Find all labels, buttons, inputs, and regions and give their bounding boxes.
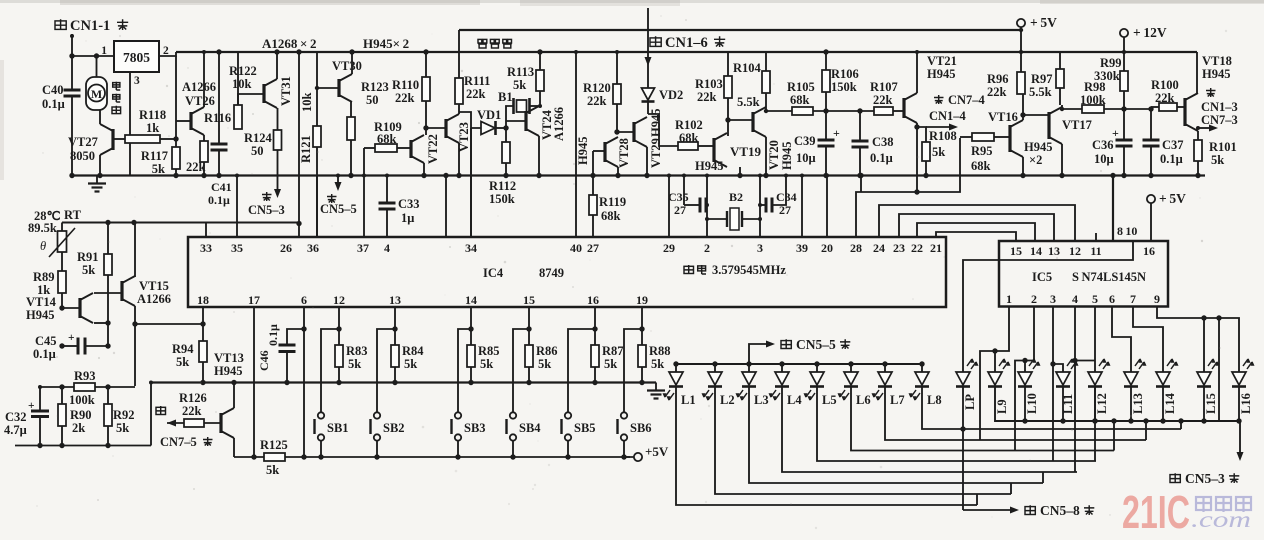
svg-text:R117: R117 [141, 149, 168, 163]
svg-text:19: 19 [636, 293, 648, 307]
svg-text:5: 5 [1092, 292, 1098, 306]
svg-text:C38: C38 [872, 135, 894, 149]
LED L4 [779, 361, 784, 366]
svg-text:5k: 5k [604, 357, 617, 371]
svg-text:15: 15 [523, 293, 535, 307]
wire VT22 emitter to ground rail [423, 163, 425, 176]
svg-text:A1268 × 2: A1268 × 2 [262, 36, 317, 51]
svg-text:27: 27 [587, 241, 599, 255]
wire IC4 pin drop for R88 [641, 307, 643, 345]
switch SB2 [377, 329, 395, 412]
svg-text:R97: R97 [1031, 72, 1053, 86]
wire VD2 to VT29 collector [647, 102, 649, 115]
svg-text:R124: R124 [244, 131, 273, 145]
wire bottom-left rail [15, 445, 151, 447]
wire RT pull-up vertical (pin 26 riser) [296, 49, 301, 54]
svg-text:SB2: SB2 [383, 421, 405, 435]
svg-text:L12: L12 [1095, 393, 1109, 414]
svg-text:4: 4 [1072, 292, 1078, 306]
wire VT30 base from R121 [317, 87, 339, 89]
wire +12V entry [1120, 29, 1128, 37]
transistor VT13 [219, 413, 222, 433]
wire VT17 emitter to rail [1061, 144, 1063, 176]
svg-text:R104: R104 [733, 61, 762, 75]
svg-text:VT29: VT29 [649, 138, 663, 168]
svg-text:5k: 5k [480, 357, 493, 371]
svg-text:C46: C46 [257, 350, 271, 371]
wire LED cathode to bus at x=1095 [1094, 387, 1096, 422]
svg-text:CN1–6: CN1–6 [665, 35, 708, 51]
wire L2 cathode run [715, 387, 1011, 495]
wire bundle pin23 to IC5-13 [899, 214, 1054, 241]
wire IC5 pin4 drop to L4 run [1074, 307, 1076, 473]
svg-text:H945: H945 [214, 364, 242, 378]
svg-text:VT17: VT17 [1062, 118, 1092, 132]
wire VT16 emitter to rail [1022, 157, 1024, 176]
svg-text:1μ: 1μ [401, 211, 414, 225]
svg-text:R105: R105 [787, 80, 815, 94]
svg-text:150k: 150k [489, 192, 515, 206]
svg-text:17: 17 [248, 293, 260, 307]
switch SB1 [321, 329, 339, 412]
motor M 电动机 [86, 77, 107, 110]
svg-text:1k: 1k [146, 121, 159, 135]
wire 7805 pin1 [72, 55, 114, 57]
svg-text:C36: C36 [1092, 138, 1114, 152]
wire IC5 pin10 notch and LP anode feed [963, 241, 1133, 372]
svg-text:M: M [91, 87, 102, 101]
wire VT28 base from pin27 line [593, 150, 605, 152]
wire pin34 riser to VD1 node [470, 128, 472, 237]
ground symbol left [96, 176, 98, 184]
svg-text:VD2: VD2 [659, 88, 683, 102]
wire IC4 pin drop for R84 [394, 307, 396, 345]
wire LED cathode to bus at x=1163 [1162, 387, 1164, 422]
wire pin17 drop [253, 307, 255, 457]
svg-text:+ 5V: + 5V [1159, 191, 1186, 206]
wire IC5 pin2 to L10 anode and L6 run [1015, 307, 1034, 451]
svg-text:R102: R102 [675, 118, 703, 132]
svg-text:5k: 5k [176, 355, 189, 369]
svg-text:8 10: 8 10 [1117, 224, 1137, 238]
wire L6 cathode run [851, 387, 1114, 451]
svg-text:R126: R126 [179, 391, 207, 405]
node CN1-1 input label 由CN1-1来 [55, 19, 66, 30]
svg-text:SB6: SB6 [630, 421, 652, 435]
wire VT20 emitter to ground rail [765, 137, 767, 176]
LED L7 [882, 361, 887, 366]
svg-text:5k: 5k [538, 357, 551, 371]
svg-text:H945× 2: H945× 2 [363, 36, 409, 51]
wire LED cathode to bus at x=1025 [1024, 387, 1026, 422]
LED L3 [746, 361, 751, 366]
wire pin20 riser [826, 176, 828, 238]
svg-text:22k: 22k [466, 87, 486, 101]
wire mid-low ground rail [151, 381, 656, 383]
wire VT23 base from R110 [426, 127, 446, 129]
svg-text:C45: C45 [35, 334, 57, 348]
wire mesh stub L3-L2 [1010, 483, 1012, 494]
svg-text:3.579545MHz: 3.579545MHz [712, 263, 786, 277]
LED L8 [919, 361, 924, 366]
svg-text:50: 50 [251, 144, 264, 158]
svg-text:C37: C37 [1162, 138, 1184, 152]
svg-text:H945: H945 [780, 142, 794, 170]
svg-text:L4: L4 [787, 393, 802, 407]
svg-text:16: 16 [587, 293, 599, 307]
svg-text:+: + [1112, 126, 1119, 140]
svg-text:R106: R106 [831, 67, 859, 81]
wire IC4 pin drop for R85 [470, 307, 472, 345]
svg-text:CN5–3: CN5–3 [248, 203, 285, 217]
svg-text:LP: LP [963, 394, 977, 410]
wire VT18 collector from rail (rail right end) [1196, 52, 1198, 93]
wire 7805 pin3 to ground rail [129, 72, 131, 176]
wire pin36 riser [316, 176, 318, 238]
svg-text:+: + [68, 332, 75, 344]
svg-text:22k: 22k [873, 93, 893, 107]
wire VT27 emitter to ground [99, 155, 101, 176]
svg-text:10μ: 10μ [1094, 152, 1114, 166]
wire +5V return rail bottom [285, 456, 634, 458]
wire R110 to VT22 collector / VT23 base [425, 101, 427, 135]
svg-text:4.7μ: 4.7μ [4, 423, 27, 437]
svg-text:C35: C35 [668, 190, 689, 204]
svg-text:VT28: VT28 [617, 138, 631, 168]
wire VT24 collector [538, 105, 540, 107]
wire VT21 collector to rail [916, 52, 918, 93]
wire VT15 emitter to pin18 [135, 323, 203, 325]
svg-text:26: 26 [280, 241, 292, 255]
node CN7-4 / CN1-4 output arrow [934, 95, 944, 104]
svg-text:29: 29 [663, 241, 675, 255]
svg-text:21IC: 21IC [1122, 486, 1190, 538]
svg-text:CN5–5: CN5–5 [796, 337, 836, 352]
node CN1-6 input 由CN1-6来 [650, 36, 661, 47]
svg-text:R116: R116 [204, 111, 231, 125]
svg-text:35: 35 [231, 241, 243, 255]
wire CN1-6 drop with arrow [647, 8, 649, 88]
wire pin39 riser [801, 176, 803, 238]
wire CN1-1 drop [71, 34, 73, 90]
svg-text:89.5k: 89.5k [28, 221, 57, 235]
svg-text:CN5–8: CN5–8 [1040, 503, 1080, 518]
svg-text:5.5k: 5.5k [1029, 85, 1052, 99]
wire mesh riser L7 to bus [1145, 421, 1147, 440]
svg-text:A1266: A1266 [137, 292, 171, 306]
svg-text:L13: L13 [1131, 393, 1145, 414]
svg-text:R87: R87 [602, 344, 624, 358]
switch SB6 [624, 329, 642, 412]
wire L4 cathode run [782, 387, 1077, 473]
wire VT18 emitter node to CN1-3 CN7-3 [1197, 131, 1199, 140]
wire main +5V rail (from 7805 pin 2) [176, 51, 1197, 53]
svg-text:C41: C41 [211, 180, 232, 194]
svg-text:VD1: VD1 [477, 108, 501, 122]
svg-text:22k: 22k [987, 85, 1007, 99]
svg-text:B1: B1 [498, 90, 513, 104]
LED L15 [1197, 372, 1211, 385]
svg-text:R121: R121 [299, 135, 313, 163]
svg-text:0.1μ: 0.1μ [870, 151, 893, 165]
svg-text:2k: 2k [72, 421, 85, 435]
svg-text:4: 4 [384, 241, 390, 255]
LED L1 [673, 361, 678, 366]
wire thermistor rail [62, 222, 299, 224]
svg-text:C32: C32 [5, 410, 27, 424]
switch SB3 [458, 329, 471, 412]
wire LED cathode to bus at x=1131 [1130, 387, 1132, 422]
svg-text:L14: L14 [1163, 392, 1177, 414]
wire L7 cathode run [885, 387, 1146, 441]
svg-text:39: 39 [796, 241, 808, 255]
svg-text:37: 37 [357, 241, 369, 255]
wire VT13 collector to rail [233, 383, 235, 409]
svg-text:R83: R83 [346, 344, 368, 358]
svg-text:H945: H945 [1024, 140, 1052, 154]
svg-text:L16: L16 [1239, 393, 1253, 414]
svg-text:5k: 5k [404, 357, 417, 371]
wire motor top [96, 56, 98, 77]
wire pin33 stub [205, 223, 207, 238]
wire VT13 emitter to +5V return rail [233, 438, 235, 457]
svg-text:R90: R90 [70, 408, 92, 422]
wire bundle pin24 to IC5-12 [879, 205, 1075, 241]
svg-text:R120: R120 [583, 81, 611, 95]
svg-text:R107: R107 [870, 80, 898, 94]
wire buzzer top rail [459, 29, 1021, 31]
wire VT14 base [59, 305, 64, 310]
svg-text:13: 13 [389, 293, 401, 307]
svg-text:22k: 22k [697, 90, 717, 104]
svg-text:S N74LS145N: S N74LS145N [1072, 270, 1146, 284]
wire L9-L16 cathode bus [995, 387, 1240, 422]
IC U-IC5 SN74LS145N box [999, 241, 1168, 307]
svg-text:+ 5V: + 5V [1030, 15, 1057, 30]
wire bundle pin22 to IC5-14 [917, 223, 1035, 241]
wire VT31 collector to rail [276, 52, 278, 79]
svg-text:VT20: VT20 [767, 140, 781, 170]
svg-text:VT13: VT13 [214, 351, 244, 365]
svg-text:R88: R88 [649, 344, 671, 358]
svg-text:IC5: IC5 [1032, 270, 1052, 284]
IC U-IC4 8749 box [188, 237, 946, 307]
svg-text:H945: H945 [26, 308, 54, 322]
wire VT17 base from VT16 collector [1023, 114, 1049, 116]
arrow 由CN5-8来 [963, 509, 1011, 511]
svg-text:CN1–3: CN1–3 [1201, 100, 1238, 114]
wire IC5 pin3 drop to L5 run [1052, 307, 1054, 462]
svg-text:VT18: VT18 [1202, 54, 1232, 68]
LED L10 [1018, 372, 1032, 385]
svg-text:8050: 8050 [70, 149, 95, 163]
wire L1 cathode run [676, 387, 977, 506]
svg-text:VT15: VT15 [139, 279, 169, 293]
svg-text:B2: B2 [729, 190, 743, 204]
svg-text:5k: 5k [266, 463, 279, 477]
svg-text:0.1μ: 0.1μ [266, 324, 280, 346]
svg-text:R92: R92 [113, 408, 135, 422]
wire IC5 pin6 to L13 anode [1112, 307, 1131, 373]
LED L5 [814, 361, 819, 366]
svg-text:0.1μ: 0.1μ [33, 347, 56, 361]
svg-text:C39: C39 [794, 134, 816, 148]
wire +5V to IC5 pin16 [1147, 195, 1155, 203]
svg-text:330k: 330k [1094, 69, 1120, 83]
svg-text:5k: 5k [651, 357, 664, 371]
wire VT23 emitter to ground rail [458, 143, 460, 176]
LED L9 [988, 372, 1002, 385]
svg-text:R84: R84 [402, 344, 424, 358]
wire L5 cathode run [817, 387, 1096, 462]
wire L16 cathode to CN5-3 arrow 由CN5-3来 [1238, 387, 1240, 422]
wire VT26 emitter up to rail [203, 52, 205, 107]
svg-text:L8: L8 [927, 393, 942, 407]
switch SB5 [568, 329, 595, 412]
svg-text:2: 2 [704, 241, 710, 255]
svg-text:R103: R103 [695, 77, 723, 91]
wire VT29 base from VT28 collector [617, 131, 634, 133]
LED L14 [1156, 372, 1170, 385]
svg-text:L6: L6 [856, 393, 871, 407]
svg-text:CN7–3: CN7–3 [1201, 113, 1238, 127]
svg-text:R118: R118 [139, 108, 166, 122]
svg-text:R119: R119 [599, 195, 626, 209]
svg-text:R123: R123 [361, 80, 389, 94]
wire R122 base feed to VT31 [237, 93, 239, 95]
svg-text:8749: 8749 [539, 266, 564, 280]
watermark 电子网 [1196, 497, 1251, 512]
wire pin37 riser [363, 148, 365, 237]
svg-text:0.1μ: 0.1μ [208, 193, 230, 207]
svg-text:θ: θ [40, 239, 46, 253]
wire L8 cathode run [922, 387, 1181, 430]
svg-text:R94: R94 [172, 342, 194, 356]
svg-text:L1: L1 [681, 393, 696, 407]
svg-text:3: 3 [134, 75, 140, 87]
svg-text:.com: .com [1191, 507, 1251, 532]
svg-text:10μ: 10μ [796, 151, 816, 165]
wire LED anode rail and CN5-5 arrow 由CN5-5来 [676, 363, 922, 365]
svg-text:23: 23 [893, 241, 905, 255]
svg-text:SB1: SB1 [327, 421, 349, 435]
svg-text:L2: L2 [720, 393, 735, 407]
svg-text:22k: 22k [182, 404, 202, 418]
wire VT19 emitter to ground rail [739, 167, 741, 176]
wire LED cathode to bus at x=1063 [1062, 387, 1064, 422]
svg-text:16: 16 [1143, 244, 1155, 258]
wire mesh riser L6 to bus [1113, 421, 1115, 451]
wire IC4 pin drop for R87 [594, 307, 596, 345]
svg-text:21: 21 [930, 241, 942, 255]
LED L13 [1124, 372, 1138, 385]
wire pin6 drop [303, 307, 305, 457]
svg-text:R93: R93 [74, 369, 96, 383]
LED L11 [1056, 372, 1070, 385]
svg-text:11: 11 [1090, 244, 1101, 258]
svg-text:R86: R86 [536, 344, 558, 358]
wire IC5 pin7 to L14 anode [1133, 307, 1163, 373]
svg-text:2: 2 [1031, 292, 1037, 306]
wire IC5 pin5 drop to L3 run [1094, 307, 1096, 373]
svg-text:20: 20 [821, 241, 833, 255]
svg-text:VT30: VT30 [332, 59, 362, 73]
svg-text:R110: R110 [392, 78, 419, 92]
svg-text:×2: ×2 [1029, 153, 1042, 167]
svg-text:R108: R108 [929, 129, 957, 143]
svg-text:VT27: VT27 [68, 135, 98, 149]
svg-text:15: 15 [1010, 244, 1022, 258]
svg-text:R99: R99 [1100, 56, 1122, 70]
svg-text:34: 34 [465, 241, 477, 255]
svg-text:33: 33 [200, 241, 212, 255]
wire LP cathode to CN5-8 [962, 387, 964, 511]
wire stub to IC4 at 446 [443, 173, 448, 178]
svg-text:22k: 22k [395, 91, 415, 105]
svg-text:+: + [833, 126, 840, 140]
svg-text:CN5–3: CN5–3 [1185, 471, 1225, 486]
svg-text:R125: R125 [260, 438, 288, 452]
svg-text:18: 18 [197, 293, 209, 307]
wire pin34 riser part below rail [470, 128, 472, 237]
svg-text:9: 9 [1154, 292, 1160, 306]
svg-text:H945: H945 [927, 67, 955, 81]
wire pin18 drop [202, 307, 204, 324]
svg-text:68k: 68k [790, 93, 810, 107]
wire VT17 collector node [1060, 107, 1064, 111]
wire mesh stub L2-L1 [976, 494, 978, 505]
wire VT14 collector to VT15 base [94, 292, 121, 294]
wire LED cathode to bus at x=1204 [1203, 387, 1205, 422]
wire +5V entry right [1017, 19, 1025, 27]
svg-text:0.1μ: 0.1μ [42, 97, 65, 111]
wire pin29 riser [668, 176, 670, 238]
svg-text:R91: R91 [77, 250, 99, 264]
wire L12 anode tap [1075, 360, 1095, 362]
svg-text:40: 40 [570, 241, 582, 255]
svg-text:CN5–5: CN5–5 [320, 202, 357, 216]
svg-text:L9: L9 [995, 399, 1009, 414]
wire VT30 collector to rail [351, 52, 353, 74]
svg-text:L7: L7 [890, 393, 905, 407]
svg-text:22k: 22k [587, 94, 607, 108]
ground symbol mid [655, 383, 657, 391]
wire IC5 pin8 riser to ground rail [1112, 176, 1114, 242]
svg-text:RT: RT [64, 208, 82, 222]
switch SB4 [513, 329, 529, 412]
node CN7-5 input 由 CN7-5来 [156, 406, 166, 415]
svg-text:R85: R85 [478, 344, 500, 358]
svg-text:VT14: VT14 [26, 295, 57, 309]
svg-text:13: 13 [1048, 244, 1060, 258]
wire pin35 riser [236, 176, 238, 238]
svg-text:VT22: VT22 [426, 134, 440, 164]
svg-text:R95: R95 [971, 144, 993, 158]
svg-text:1: 1 [1006, 292, 1012, 306]
wire VT29 emitter to ground rail [646, 147, 648, 176]
wire L3 cathode run [749, 387, 1043, 484]
svg-text:CN7–4: CN7–4 [948, 93, 986, 107]
wire VT21 emitter down [916, 123, 918, 192]
wire VT20 base from VT19 collector [728, 119, 752, 121]
svg-text:50: 50 [366, 93, 379, 107]
wire VT15 collector to RT rail [134, 223, 136, 278]
svg-text:CN1-1: CN1-1 [70, 18, 110, 34]
LED L2 [712, 361, 717, 366]
svg-text:VT16: VT16 [988, 110, 1018, 124]
svg-text:R111: R111 [464, 74, 490, 88]
svg-text:10k: 10k [232, 77, 252, 91]
